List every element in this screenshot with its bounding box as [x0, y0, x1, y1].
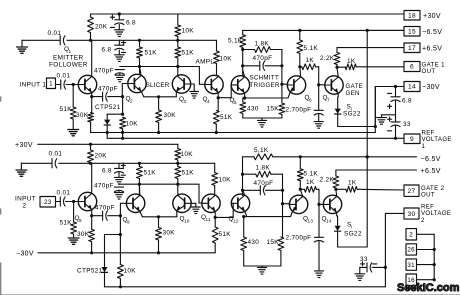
terminal box 26: [406, 244, 417, 255]
transistor Q10 slicer ch2: [173, 194, 191, 212]
transistor Q14 gate gen ch2: [323, 195, 341, 213]
node CTP521 ch1: [121, 113, 124, 116]
wire schmitt emitter bus ch2: [244, 216, 291, 218]
svg-text:5: 5: [234, 100, 237, 105]
wire Q13 base node ch2: [282, 174, 284, 237]
capacitor 6.8 (node-B bypass ch2): [118, 163, 120, 168]
resistor 20K (ch2 supply decoupling): [90, 144, 92, 150]
resistor 1.8K (schmitt feedback ch1): [243, 49, 255, 51]
wire Q13 emitter: [291, 211, 293, 216]
resistor 51K (Q3 collector load): [177, 40, 179, 47]
svg-text:470pF: 470pF: [253, 55, 273, 62]
terminal box 30 REF VOLTAGE 2: [404, 208, 419, 219]
svg-text:INPUT: INPUT: [15, 196, 36, 203]
wire -30V bus ch1: [90, 132, 92, 133]
svg-text:i: i: [351, 225, 352, 230]
terminal box 17 +6.5V: [404, 43, 420, 53]
svg-text:10K: 10K: [181, 151, 194, 158]
resistor 5.1K (Q6 collector load): [299, 30, 301, 40]
svg-text:51K: 51K: [60, 220, 73, 227]
svg-text:SeekIC.com: SeekIC.com: [397, 282, 460, 294]
svg-text:6.8: 6.8: [102, 47, 112, 54]
svg-text:2,700pF: 2,700pF: [286, 107, 312, 114]
wire +30V rail ch2: [38, 143, 178, 145]
wire Q7 collector lead: [337, 67, 338, 77]
resistor 51K (Q11 emitter): [214, 217, 216, 227]
node Q13 collector: [299, 188, 302, 191]
resistor 10K (ch1 collector feed): [177, 14, 179, 25]
svg-text:13: 13: [308, 219, 314, 224]
svg-text:470pF: 470pF: [94, 68, 114, 75]
node Q8 emitter: [90, 214, 93, 217]
transistor Q5 schmitt: [231, 76, 249, 94]
svg-text:+30V: +30V: [423, 13, 441, 20]
svg-text:51K: 51K: [60, 106, 73, 113]
transistor Q4 AMPL: [205, 75, 223, 93]
transistor Q3 slicer: [172, 75, 190, 93]
svg-text:51K: 51K: [182, 50, 195, 57]
terminal box 31: [406, 259, 417, 270]
svg-text:VOLTAGE: VOLTAGE: [421, 210, 451, 217]
svg-text:33: 33: [360, 256, 368, 263]
svg-text:1: 1: [422, 143, 426, 150]
diode CTP521 ch1: [107, 113, 122, 115]
resistor 5.1K (Q5 collector load): [242, 30, 244, 34]
node Q4 emitter: [217, 96, 220, 99]
wire schmitt emitter bus ch1: [243, 97, 288, 99]
wire terminal bracket: [417, 233, 435, 235]
capacitor 33 (ref filter ch1): [395, 115, 397, 122]
wire Q6 emitter: [288, 92, 290, 98]
wire Q9 base network: [119, 203, 121, 215]
svg-text:9: 9: [410, 136, 414, 143]
ground (2700pF ch1): [314, 121, 323, 123]
ground (33 ref ch2): [355, 273, 365, 275]
terminal box 15 -6.5V: [404, 27, 420, 37]
wire +6.5V rail ch2: [336, 169, 339, 171]
wire -30V rail ch2: [38, 252, 215, 254]
ground (under 470pF bus bypass ch2): [114, 192, 123, 194]
wire schmitt ground join ch1: [243, 117, 282, 119]
wire Q8 collector: [91, 163, 93, 193]
wire node-B rail ch2: [21, 162, 52, 164]
terminal box 9 REF VOLTAGE 1: [404, 134, 420, 144]
resistor 10K (CTP521 ch1): [120, 117, 126, 129]
svg-text:10K: 10K: [220, 56, 233, 63]
svg-text:30K: 30K: [164, 112, 177, 119]
svg-text:470pF: 470pF: [98, 86, 118, 93]
terminal box 27 GATE 2 OUT: [404, 185, 419, 196]
resistor 15K (Q6 base bias ch1): [279, 103, 285, 115]
resistor 30K (Q8 emitter): [91, 210, 93, 230]
svg-text:10K: 10K: [182, 28, 195, 35]
resistor 30K (slicer emitters ch2): [158, 217, 160, 228]
wire -30V feed ch1: [375, 86, 404, 88]
svg-text:430: 430: [248, 239, 260, 246]
terminal box 2: [406, 229, 417, 240]
svg-text:1K: 1K: [348, 180, 357, 187]
wire Q10 base to ground: [191, 202, 196, 204]
wire REF bus ch1: [107, 137, 403, 139]
wire Q5 emitter: [244, 93, 246, 98]
wire schmitt ground join ch2: [244, 265, 281, 267]
wire Q13 collector lead: [300, 189, 303, 196]
wire +6.5V to box 17: [337, 47, 404, 49]
svg-text:EMITTER: EMITTER: [53, 55, 84, 62]
svg-text:GEN: GEN: [346, 90, 360, 97]
capacitor 0.01 (input 1 coupling): [56, 84, 61, 86]
svg-text:0.01: 0.01: [48, 30, 62, 37]
capacitor 470pF (slicer bus bypass ch2): [114, 186, 123, 188]
svg-text:CTP521: CTP521: [95, 104, 121, 111]
wire Q9 collector lead: [138, 184, 140, 195]
wire Q12 emitter: [245, 211, 247, 216]
svg-text:15K: 15K: [267, 239, 280, 246]
wire Q2 base network: [121, 84, 123, 97]
svg-text:20K: 20K: [95, 153, 108, 160]
svg-text:INPUT 1: INPUT 1: [20, 82, 47, 89]
svg-text:12: 12: [233, 219, 239, 224]
capacitor 470pF (slicer bus bypass ch1): [115, 69, 124, 71]
transistor Q1 emitter follower: [78, 75, 96, 93]
svg-text:30: 30: [407, 211, 415, 218]
resistor 51K (input 1 bias): [72, 85, 74, 108]
svg-text:430: 430: [247, 106, 259, 113]
diode Si SG22 ch2: [336, 212, 338, 216]
svg-text:SG22: SG22: [343, 111, 361, 118]
ground (under 470pF bus bypass ch1): [115, 74, 124, 76]
svg-text:7: 7: [327, 98, 330, 103]
wire -6.5V drop: [366, 30, 368, 157]
resistor 5.1K (Q13 collector load): [299, 157, 301, 169]
svg-text:51K: 51K: [220, 114, 233, 121]
svg-text:5,1K: 5,1K: [254, 147, 269, 154]
svg-text:20K: 20K: [95, 24, 108, 31]
svg-text:2.2K: 2.2K: [320, 55, 335, 62]
svg-text:31: 31: [407, 262, 415, 269]
resistor 10K (ch2 collector feed): [177, 144, 179, 148]
wire -6.5V rail ch2 with 5.1K: [243, 156, 254, 158]
capacitor 0.01 (ch1 filter): [59, 36, 61, 45]
resistor 51K (input 2 bias): [73, 202, 75, 223]
svg-text:1K: 1K: [306, 179, 315, 186]
capacitor 470pF (Q8-Q9 coupling): [92, 215, 103, 217]
resistor 1K (gate 2 output): [336, 188, 346, 190]
svg-text:SLICER: SLICER: [146, 82, 170, 89]
svg-text:18: 18: [408, 12, 416, 19]
svg-text:51K: 51K: [219, 231, 232, 238]
wire Q2 emitter to bus: [141, 92, 144, 97]
svg-text:5.1K: 5.1K: [304, 171, 319, 178]
resistor 1K (schmitt output ch1): [300, 66, 302, 68]
wire to box 15: [367, 29, 404, 31]
terminal box 1: [47, 78, 56, 89]
svg-text:6.8: 6.8: [102, 168, 112, 175]
svg-text:5,1K: 5,1K: [228, 38, 243, 45]
ground (2700pF ch2): [314, 270, 323, 272]
svg-text:26: 26: [407, 247, 415, 254]
transistor Q13 schmitt ch2: [289, 195, 307, 213]
resistor 1.8K (schmitt feedback ch2): [243, 173, 256, 175]
wire Q4 collector lead: [217, 76, 219, 77]
node Q1 emitter: [90, 95, 93, 98]
svg-text:5.1K: 5.1K: [304, 45, 319, 52]
capacitor 0.01 (ch2 filter): [51, 159, 53, 168]
transistor Q8 emitter follower ch2: [78, 192, 96, 210]
svg-text:6.8: 6.8: [126, 20, 136, 27]
svg-text:−30V: −30V: [422, 84, 440, 91]
wire slicer output bus ch2: [119, 183, 199, 185]
svg-text:2: 2: [23, 203, 27, 210]
resistor 51K (Q9 collector load): [138, 163, 140, 166]
transistor Q11 AMPL ch2: [202, 194, 220, 212]
terminal box 23: [40, 197, 56, 208]
ground (input filter ch1): [21, 40, 23, 47]
wire Q2 collector: [140, 67, 142, 76]
svg-text:51K: 51K: [182, 170, 195, 177]
node Q6 collector: [298, 65, 301, 68]
wire Q12 collector lead: [243, 189, 245, 195]
svg-text:TRIGGER: TRIGGER: [250, 82, 280, 89]
terminal box 14 -30V: [404, 82, 420, 92]
wire Q12 collector drop: [242, 157, 244, 196]
capacitor 0.01 (input 2 coupling): [56, 201, 61, 203]
wire REF bus ch2: [105, 286, 386, 288]
capacitor 6.8 (ch1 +30V bypass): [118, 14, 120, 20]
svg-text:51K: 51K: [144, 170, 157, 177]
wire Q1 collector: [91, 40, 93, 76]
capacitor 470pF (schmitt feedback ch2): [241, 189, 244, 192]
svg-text:−30V: −30V: [16, 251, 34, 258]
svg-text:14: 14: [408, 84, 416, 91]
svg-text:0.01: 0.01: [49, 151, 63, 158]
svg-text:1: 1: [69, 49, 72, 54]
ground (Q10 base): [192, 206, 201, 208]
svg-text:10K: 10K: [219, 177, 232, 184]
svg-text:9: 9: [127, 220, 130, 225]
svg-text:OUT: OUT: [422, 68, 436, 75]
svg-text:2.2K: 2.2K: [320, 177, 335, 184]
svg-text:−6.5V: −6.5V: [421, 156, 441, 163]
node Q14 collector: [334, 188, 337, 191]
wire Q6 base node ch1: [281, 50, 283, 104]
wire +30V top rail: [91, 13, 405, 15]
resistor 20K (ch1 supply decoupling): [90, 14, 92, 17]
ground (input 1 bias): [68, 129, 79, 131]
ground (under node-B bypass ch2): [114, 176, 123, 178]
wire Q5 collector lead: [243, 70, 245, 77]
resistor 5.1K (Q12 collector load, inline): [254, 154, 273, 160]
scan edge artifacts: [0, 294, 460, 295]
svg-text:OUT: OUT: [421, 192, 435, 199]
resistor 1K (schmitt output ch2): [300, 188, 304, 190]
resistor 10K AMPL (Q4 collector load): [216, 40, 218, 51]
ground (under 6.8 bypass): [114, 29, 124, 31]
diode CTP521 ch2: [105, 234, 121, 236]
terminal box 16: [406, 274, 417, 286]
svg-text:30K: 30K: [163, 230, 176, 237]
terminal box 18 +30V: [404, 11, 420, 21]
capacitor 2700pF (gate gen timing ch2): [314, 236, 323, 238]
transistor Q2 slicer: [128, 74, 146, 92]
wire slicer emitter bus ch2: [142, 216, 176, 218]
node Q12 collector feedback: [241, 173, 244, 176]
wire node-A rail ch1: [22, 39, 60, 41]
resistor 430 (schmitt emitters ch2): [243, 217, 245, 237]
svg-text:10K: 10K: [126, 121, 139, 128]
resistor 10K (Q11 collector load): [214, 163, 216, 172]
node CTP521 ch2: [119, 233, 122, 236]
svg-text:17: 17: [408, 45, 416, 52]
capacitor 470pF (schmitt feedback ch1): [241, 64, 244, 67]
ground (ref filter ch1): [382, 114, 396, 116]
ground (input 2 bias): [68, 237, 79, 239]
transistor Q7 gate gen: [325, 76, 343, 94]
svg-text:+6.5V: +6.5V: [421, 168, 441, 175]
svg-text:2: 2: [409, 232, 413, 239]
svg-text:470pF: 470pF: [254, 180, 274, 187]
svg-text:4: 4: [207, 99, 210, 104]
svg-text:6: 6: [309, 98, 312, 103]
svg-text:30K: 30K: [76, 112, 89, 119]
svg-text:1: 1: [49, 81, 53, 88]
resistor 30K (slicer emitters ch1): [158, 97, 160, 110]
svg-text:SG22: SG22: [344, 231, 362, 238]
capacitor 2700pF (gate gen timing ch1): [314, 109, 323, 111]
svg-text:1K: 1K: [347, 58, 356, 65]
wire Q11 emitter junction: [214, 211, 216, 217]
wire Q14 collector lead: [335, 189, 338, 196]
svg-text:0.01: 0.01: [57, 73, 71, 80]
wire Q9 emitter to bus: [140, 211, 143, 217]
wire Q6 collector lead: [299, 67, 302, 77]
resistor 1K (gate 1 output): [337, 66, 345, 68]
wire SG22 return ch1: [338, 126, 376, 128]
svg-text:27: 27: [407, 188, 415, 195]
diode Si SG22 ch1: [337, 93, 339, 97]
svg-text:15: 15: [408, 29, 416, 36]
svg-text:1K: 1K: [306, 57, 315, 64]
resistor 2.2K (Q7 collector load): [336, 48, 338, 53]
svg-text:11: 11: [206, 217, 212, 222]
svg-text:1.8K: 1.8K: [255, 41, 270, 48]
svg-text:470pF: 470pF: [94, 183, 114, 190]
resistor 51K (Q4 emitter): [217, 98, 219, 111]
svg-text:14: 14: [326, 219, 332, 224]
ground (Q3 base): [190, 91, 199, 93]
wire Q10 emitter to bus: [176, 211, 178, 217]
node input 1 bias: [72, 83, 75, 86]
wire Q14 base feed: [318, 189, 320, 237]
svg-text:+6.5V: +6.5V: [422, 46, 442, 53]
resistor 51K (Q2 collector load): [139, 40, 141, 47]
svg-text:CTP521: CTP521: [77, 268, 103, 275]
svg-text:FOLLOWER: FOLLOWER: [49, 62, 88, 69]
wire slicer output bus ch1: [120, 66, 200, 68]
ground (input filter ch2): [20, 163, 22, 170]
svg-text:3: 3: [184, 99, 187, 104]
node input 2 bias: [72, 200, 75, 203]
svg-text:0.01: 0.01: [57, 190, 71, 197]
svg-text:51K: 51K: [145, 50, 158, 57]
wire -6.5V rail ch1: [243, 29, 404, 31]
wire Q7 base feed: [318, 67, 320, 111]
transistor Q12 schmitt ch2: [231, 194, 249, 212]
resistor 10K (CTP521 ch2): [119, 235, 121, 265]
svg-text:−6.5V: −6.5V: [422, 29, 442, 36]
svg-text:2,700pF: 2,700pF: [286, 235, 312, 242]
capacitor 6.8 (ref filter ch1): [395, 87, 397, 97]
resistor 430 (schmitt emitters ch1): [242, 98, 244, 102]
svg-text:AMPL: AMPL: [196, 59, 215, 66]
svg-text:2: 2: [421, 217, 425, 224]
wire Q4 emitter junction: [217, 93, 219, 98]
wire Q3 base to ground: [190, 83, 194, 85]
capacitor 470pF (Q1-Q2 coupling): [92, 96, 103, 98]
transistor Q9 slicer ch2: [126, 194, 144, 212]
svg-text:30K: 30K: [77, 231, 90, 238]
ground (schmitt ch1): [257, 119, 266, 121]
svg-text:6: 6: [410, 64, 414, 71]
capacitor 33 (ref filter ch2): [372, 266, 385, 268]
svg-text:VOLTAGE: VOLTAGE: [422, 136, 452, 143]
resistor 2.2K (Q14 collector load): [335, 170, 337, 176]
ground (schmitt ch2): [257, 267, 266, 269]
wire slicer emitter bus: [144, 96, 177, 98]
wire Q3 emitter to bus: [175, 91, 177, 96]
transistor Q6 schmitt: [287, 76, 305, 94]
svg-text:10K: 10K: [124, 268, 137, 275]
terminal box 6 GATE 1 OUT: [404, 62, 420, 72]
svg-text:2: 2: [130, 99, 133, 104]
svg-text:+30V: +30V: [15, 142, 33, 149]
svg-text:10: 10: [184, 219, 190, 224]
resistor 30K (Q1 emitter): [91, 93, 93, 113]
node Q5 collector feedback: [241, 48, 244, 51]
svg-text:SCHMITT: SCHMITT: [250, 75, 280, 82]
svg-text:33: 33: [403, 121, 411, 128]
node Q11 emitter: [214, 216, 217, 219]
wire SG22 return ch2: [338, 246, 368, 248]
svg-text:23: 23: [44, 199, 52, 206]
svg-text:8: 8: [79, 218, 82, 223]
svg-text:15K: 15K: [267, 106, 280, 113]
node Q7 collector: [335, 66, 338, 69]
wire REF2 drop: [385, 212, 404, 214]
svg-text:1.8K: 1.8K: [256, 165, 271, 172]
svg-text:470pF: 470pF: [95, 205, 115, 212]
ground (under node-A bypass ch1): [114, 54, 124, 56]
svg-text:6.8: 6.8: [402, 98, 412, 105]
resistor 15K (Q13 base bias ch2): [278, 237, 284, 251]
resistor 51K (Q10 collector load): [177, 163, 179, 166]
capacitor 6.8 (node-A bypass ch1): [118, 40, 120, 45]
